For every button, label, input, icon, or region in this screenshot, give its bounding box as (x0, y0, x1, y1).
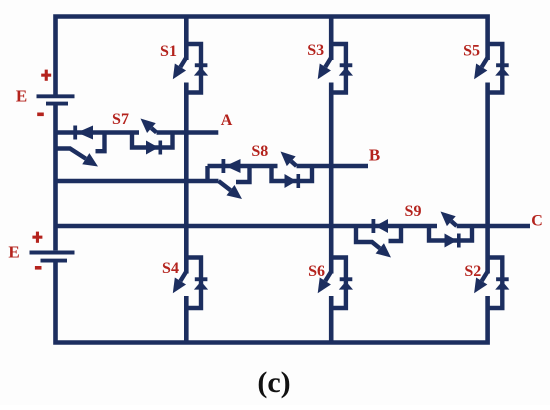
wire: S7 output to node A (157, 130, 219, 134)
wire: left wire top + top rail + S5 leg top (56, 17, 488, 95)
switch S8: blade 2 (291, 161, 296, 166)
switch S4 (173, 258, 208, 309)
svg-text:S1: S1 (160, 43, 177, 60)
battery E (top) (37, 94, 75, 98)
wire: S8 output to node B (297, 164, 369, 168)
wire: leg2 middle (S3 through B to S6) (329, 83, 334, 274)
svg-text:S4: S4 (162, 260, 179, 277)
switch S9: diode 1 (372, 219, 376, 233)
svg-text:B: B (369, 146, 380, 165)
label + (top source) (41, 70, 51, 81)
switch S3 (318, 44, 353, 93)
switch S9: contact stub 1 (389, 226, 402, 241)
svg-text:S6: S6 (308, 263, 325, 280)
switch S7: lower branch with diode 2 (132, 133, 173, 148)
switch S6 (318, 258, 353, 309)
switch S7: contact stub 1 (96, 133, 105, 152)
switch S8: blade 1 (219, 181, 231, 190)
wire: leg2 bottom (S6 to rail) (329, 296, 334, 343)
wire: leg2 top (rail to S3) (329, 17, 334, 61)
svg-text:S7: S7 (112, 111, 129, 128)
svg-text:A: A (221, 112, 233, 129)
svg-text:E: E (16, 87, 27, 106)
wire: leg1 bottom (S4 to rail) (184, 296, 189, 343)
svg-text:S5: S5 (463, 43, 480, 60)
svg-text:S9: S9 (405, 203, 422, 220)
switch S7: blade 1 (lower left) (56, 149, 86, 159)
switch S1 (173, 44, 208, 93)
wire: left wire middle (battery midpoint) (53, 105, 58, 250)
switch S8: contact stub 1 (236, 166, 250, 182)
svg-text:C: C (531, 213, 543, 230)
wire: left wire bottom + bottom rail + S2 leg bottom (56, 261, 488, 343)
wire: S9 output to node C (457, 224, 530, 228)
label - (bottom source) (35, 266, 42, 270)
switch S5 (474, 44, 509, 93)
wire: leg1 middle (S1 through A to S4) (184, 83, 189, 274)
svg-text:E: E (8, 243, 19, 262)
wire: midpoint feed to S8 (56, 179, 219, 183)
svg-text:(c): (c) (257, 366, 290, 399)
switch S9: blade 2 (451, 221, 456, 226)
svg-text:S8: S8 (251, 143, 268, 160)
battery E (bottom) (30, 251, 75, 255)
switch S2 (474, 258, 509, 309)
wire: leg3 middle (S5 through C to S2) (485, 83, 490, 274)
switch S9: lower branch with diode 2 (429, 226, 472, 241)
switch S9: anchor stub and blade 1 (356, 226, 380, 248)
label + (bottom source) (32, 232, 42, 243)
bidirectional switch S7: upper line with diode (56, 130, 140, 134)
svg-text:S3: S3 (307, 42, 324, 59)
switch S8: upper line with diode (208, 164, 278, 168)
switch S7: blade 2 (151, 128, 156, 132)
wire: leg1 top (rail to S1) (184, 17, 189, 61)
label - (top source) (37, 113, 44, 117)
switch S8: riser stub (205, 166, 209, 181)
svg-text:S2: S2 (464, 263, 481, 280)
switch S8: lower branch with diode 2 (272, 166, 313, 181)
wire: midpoint feed to S9 upper line (56, 224, 438, 228)
